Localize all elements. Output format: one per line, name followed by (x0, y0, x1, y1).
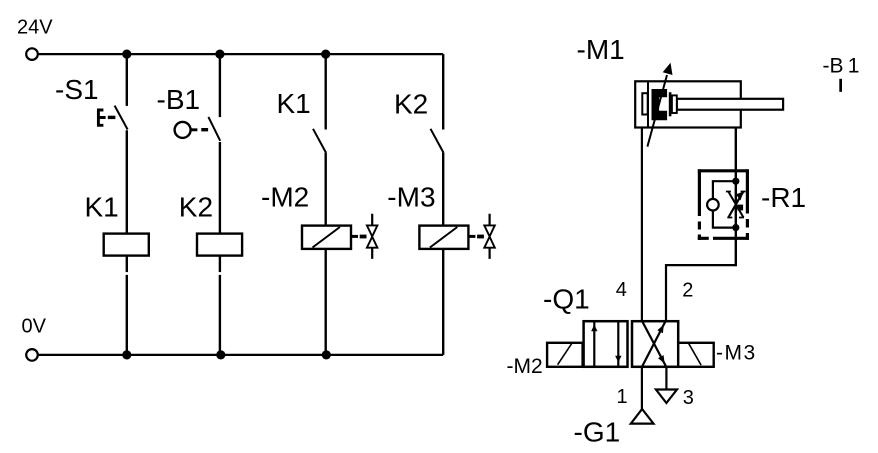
label -M1 (577, 34, 625, 65)
svg-text:24V: 24V (17, 16, 53, 38)
node bottom rail / K1 coil (122, 350, 131, 359)
wire branch3 middle (contact to M2) (325, 153, 327, 226)
label 0V (22, 316, 47, 338)
label -B 1 (sensor position) (823, 54, 860, 77)
wire branch2 upper (219, 54, 221, 117)
wire branch4 lower (442, 249, 444, 355)
svg-text:K1: K1 (277, 88, 311, 119)
label -Q1 (543, 284, 590, 315)
terminal 24V (26, 48, 38, 60)
svg-text:-S1: -S1 (55, 74, 99, 105)
relay coil K2 (197, 234, 242, 256)
wire top rail (39, 53, 444, 55)
svg-text:K2: K2 (394, 88, 428, 119)
svg-text:-M2: -M2 (261, 182, 309, 213)
wire branch3 lower (325, 249, 327, 355)
node top rail / branch B1 (215, 50, 224, 59)
exhaust port 3 (656, 390, 677, 404)
wire branch2 lower (with break) (219, 256, 221, 355)
label port 3 (683, 387, 694, 409)
svg-text:-G1: -G1 (574, 416, 621, 447)
wire R1 to valve port 2 (666, 265, 736, 321)
cylinder M1 (single acting, magnetic piston, adjustable cushioning) (635, 81, 783, 127)
svg-text:-R1: -R1 (761, 182, 806, 213)
svg-text:-M3: -M3 (387, 182, 435, 213)
label -M2 (261, 182, 309, 213)
R1 adjustable throttle (726, 192, 746, 218)
svg-text:0V: 0V (22, 316, 47, 338)
wire M1 right port through R1 (735, 128, 737, 267)
label K1 coil (85, 191, 119, 222)
wire branch2 middle (switch to coil K2) (219, 142, 221, 234)
relay coil K1 (104, 234, 149, 256)
switch S1 (NO pushbutton with detent) (97, 106, 128, 130)
R1 node bottom (732, 224, 739, 231)
sensor B1 position mark (839, 79, 842, 92)
node top rail / branch S1 (122, 50, 131, 59)
label K1 contact (277, 88, 311, 119)
wire valve port 1 to supply (641, 367, 643, 409)
node bottom rail / M2 (322, 350, 331, 359)
cushioning adjust arrow on M1 (647, 63, 672, 147)
valve Q1 body left position square (584, 321, 628, 367)
label K2 coil (179, 191, 213, 222)
flow control valve R1 (dashed frame) (698, 169, 749, 240)
terminal 0V (26, 349, 38, 361)
label port 1 (617, 386, 628, 408)
solenoid M3 valve link (468, 214, 494, 259)
Q1 right position flow paths (crossed) (642, 321, 666, 367)
Q1 left position flow paths (591, 321, 621, 367)
node bottom rail / K2 coil (216, 350, 225, 359)
wire branch1 middle (switch to coil K1) (126, 130, 128, 233)
wire branch1 lower (with break) (126, 256, 128, 355)
svg-text:4: 4 (616, 279, 627, 301)
svg-text:K1: K1 (85, 191, 119, 222)
label -B1 (157, 84, 201, 115)
label -G1 (574, 416, 621, 447)
valve Q1 body right position square (632, 321, 678, 367)
label -M3 (pilot) (716, 342, 757, 365)
solenoid M2 (302, 226, 351, 249)
svg-text:-M1: -M1 (577, 34, 625, 65)
svg-text:-M3: -M3 (716, 342, 757, 365)
solenoid M2 valve link (351, 214, 377, 259)
svg-text:-M2: -M2 (507, 355, 543, 378)
svg-text:1: 1 (617, 386, 628, 408)
node top rail / branch K1 contact (321, 50, 330, 59)
svg-text:-Q1: -Q1 (543, 284, 590, 315)
svg-text:2: 2 (682, 280, 693, 302)
svg-text:-B1: -B1 (157, 84, 201, 115)
label K2 contact (394, 88, 428, 119)
svg-text:K2: K2 (179, 191, 213, 222)
wire valve port 3 to exhaust (665, 367, 667, 390)
compressed air supply G1 (631, 409, 654, 424)
svg-text:-B 1: -B 1 (823, 54, 860, 77)
wire branch4 upper (442, 54, 444, 129)
wire M1 left port to valve port 4 (641, 128, 643, 322)
svg-text:3: 3 (683, 387, 694, 409)
wire branch3 upper (325, 54, 327, 129)
label 24V (17, 16, 53, 38)
label -S1 (55, 74, 99, 105)
solenoid pilot right (M3) (678, 343, 714, 367)
R1 check valve bypass branch (707, 181, 736, 227)
R1 node top (732, 178, 739, 185)
wire bottom rail (39, 354, 444, 356)
contact K1 (NO) (313, 129, 326, 153)
label port 4 (616, 279, 627, 301)
label -M2 (pilot) (507, 355, 543, 378)
label port 2 (682, 280, 693, 302)
solenoid pilot left (M2) (547, 343, 583, 367)
solenoid M3 (419, 226, 468, 249)
label -R1 (761, 182, 806, 213)
contact K2 (NO) (431, 129, 444, 153)
label -M3 (387, 182, 435, 213)
wire branch1 upper (126, 54, 128, 106)
wire branch4 middle (contact to M3) (442, 153, 444, 226)
switch B1 (NO limit switch, roller actuator) (175, 117, 221, 141)
